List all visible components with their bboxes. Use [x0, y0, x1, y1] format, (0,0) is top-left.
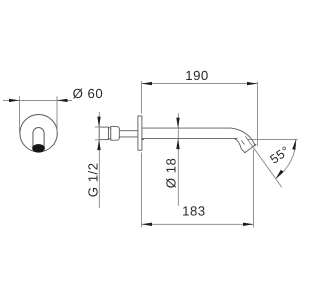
spout tip hatch stroke	[241, 140, 244, 144]
dimension 183 extension line left	[141, 153, 143, 228]
G 1/2 extension tick top	[95, 126, 101, 128]
spout bend inner curve	[234, 139, 241, 149]
spout tube bottom line	[142, 138, 238, 140]
angle 55 arc	[276, 139, 296, 178]
dimension Ø18 arrow top	[176, 118, 179, 129]
dimension G 1/2 arrow top	[97, 117, 100, 128]
dimension 190 line	[142, 83, 258, 85]
front view spout capsule	[33, 128, 44, 149]
dimension G 1/2 line	[98, 112, 100, 208]
dimension Ø60 extension line right	[56, 96, 58, 133]
spout bend outer curve	[231, 128, 255, 146]
svg-text:Ø 18: Ø 18	[164, 158, 179, 189]
angle 55 arc arrow top	[292, 139, 296, 150]
dimension Ø60 arrow right	[57, 99, 68, 102]
dimension 183 line	[142, 223, 254, 225]
dimension G 1/2 arrow bottom	[97, 140, 100, 151]
spout tip outlet face edge	[245, 144, 257, 153]
connecting pipe top line	[119, 130, 138, 132]
dimension Ø18 arrow bottom	[176, 139, 179, 150]
dimension Ø18 line	[177, 113, 179, 206]
front view outlet opening (filled)	[32, 144, 45, 153]
dimension 190 arrow right	[247, 82, 258, 85]
dimension 190 arrow left	[142, 82, 153, 85]
front view flange circle	[20, 115, 57, 152]
fitting collar ring	[111, 127, 120, 141]
dimension Ø60 line	[3, 99, 72, 101]
dimension Ø60 arrow left	[9, 99, 20, 102]
tube-plate junction wedge	[142, 138, 144, 140]
dimension 190 extension line right	[257, 81, 259, 146]
dimension Ø60 extension line left	[19, 96, 21, 133]
wall plate	[138, 116, 142, 150]
angle 55 slanted line	[245, 136, 281, 187]
dimension 183 arrow left	[142, 223, 153, 226]
G 1/2 threaded nipple	[99, 127, 108, 140]
G 1/2 extension tick bottom	[95, 139, 101, 141]
svg-text:183: 183	[182, 204, 206, 219]
connecting pipe bottom line	[119, 136, 138, 138]
svg-text:Ø 60: Ø 60	[73, 86, 104, 101]
svg-text:G 1/2: G 1/2	[85, 162, 100, 197]
dimension 183 arrow right	[243, 223, 254, 226]
dimension 183 extension line right	[253, 150, 255, 228]
angle 55 horizontal reference line	[247, 138, 298, 140]
fitting groove ring	[109, 128, 111, 139]
spout tip bottom closing edge	[241, 148, 245, 153]
angle 55 arc arrow bottom	[276, 170, 284, 179]
dimension 190 extension line left	[141, 81, 143, 113]
spout tube top line	[142, 127, 232, 129]
svg-text:190: 190	[185, 68, 209, 83]
